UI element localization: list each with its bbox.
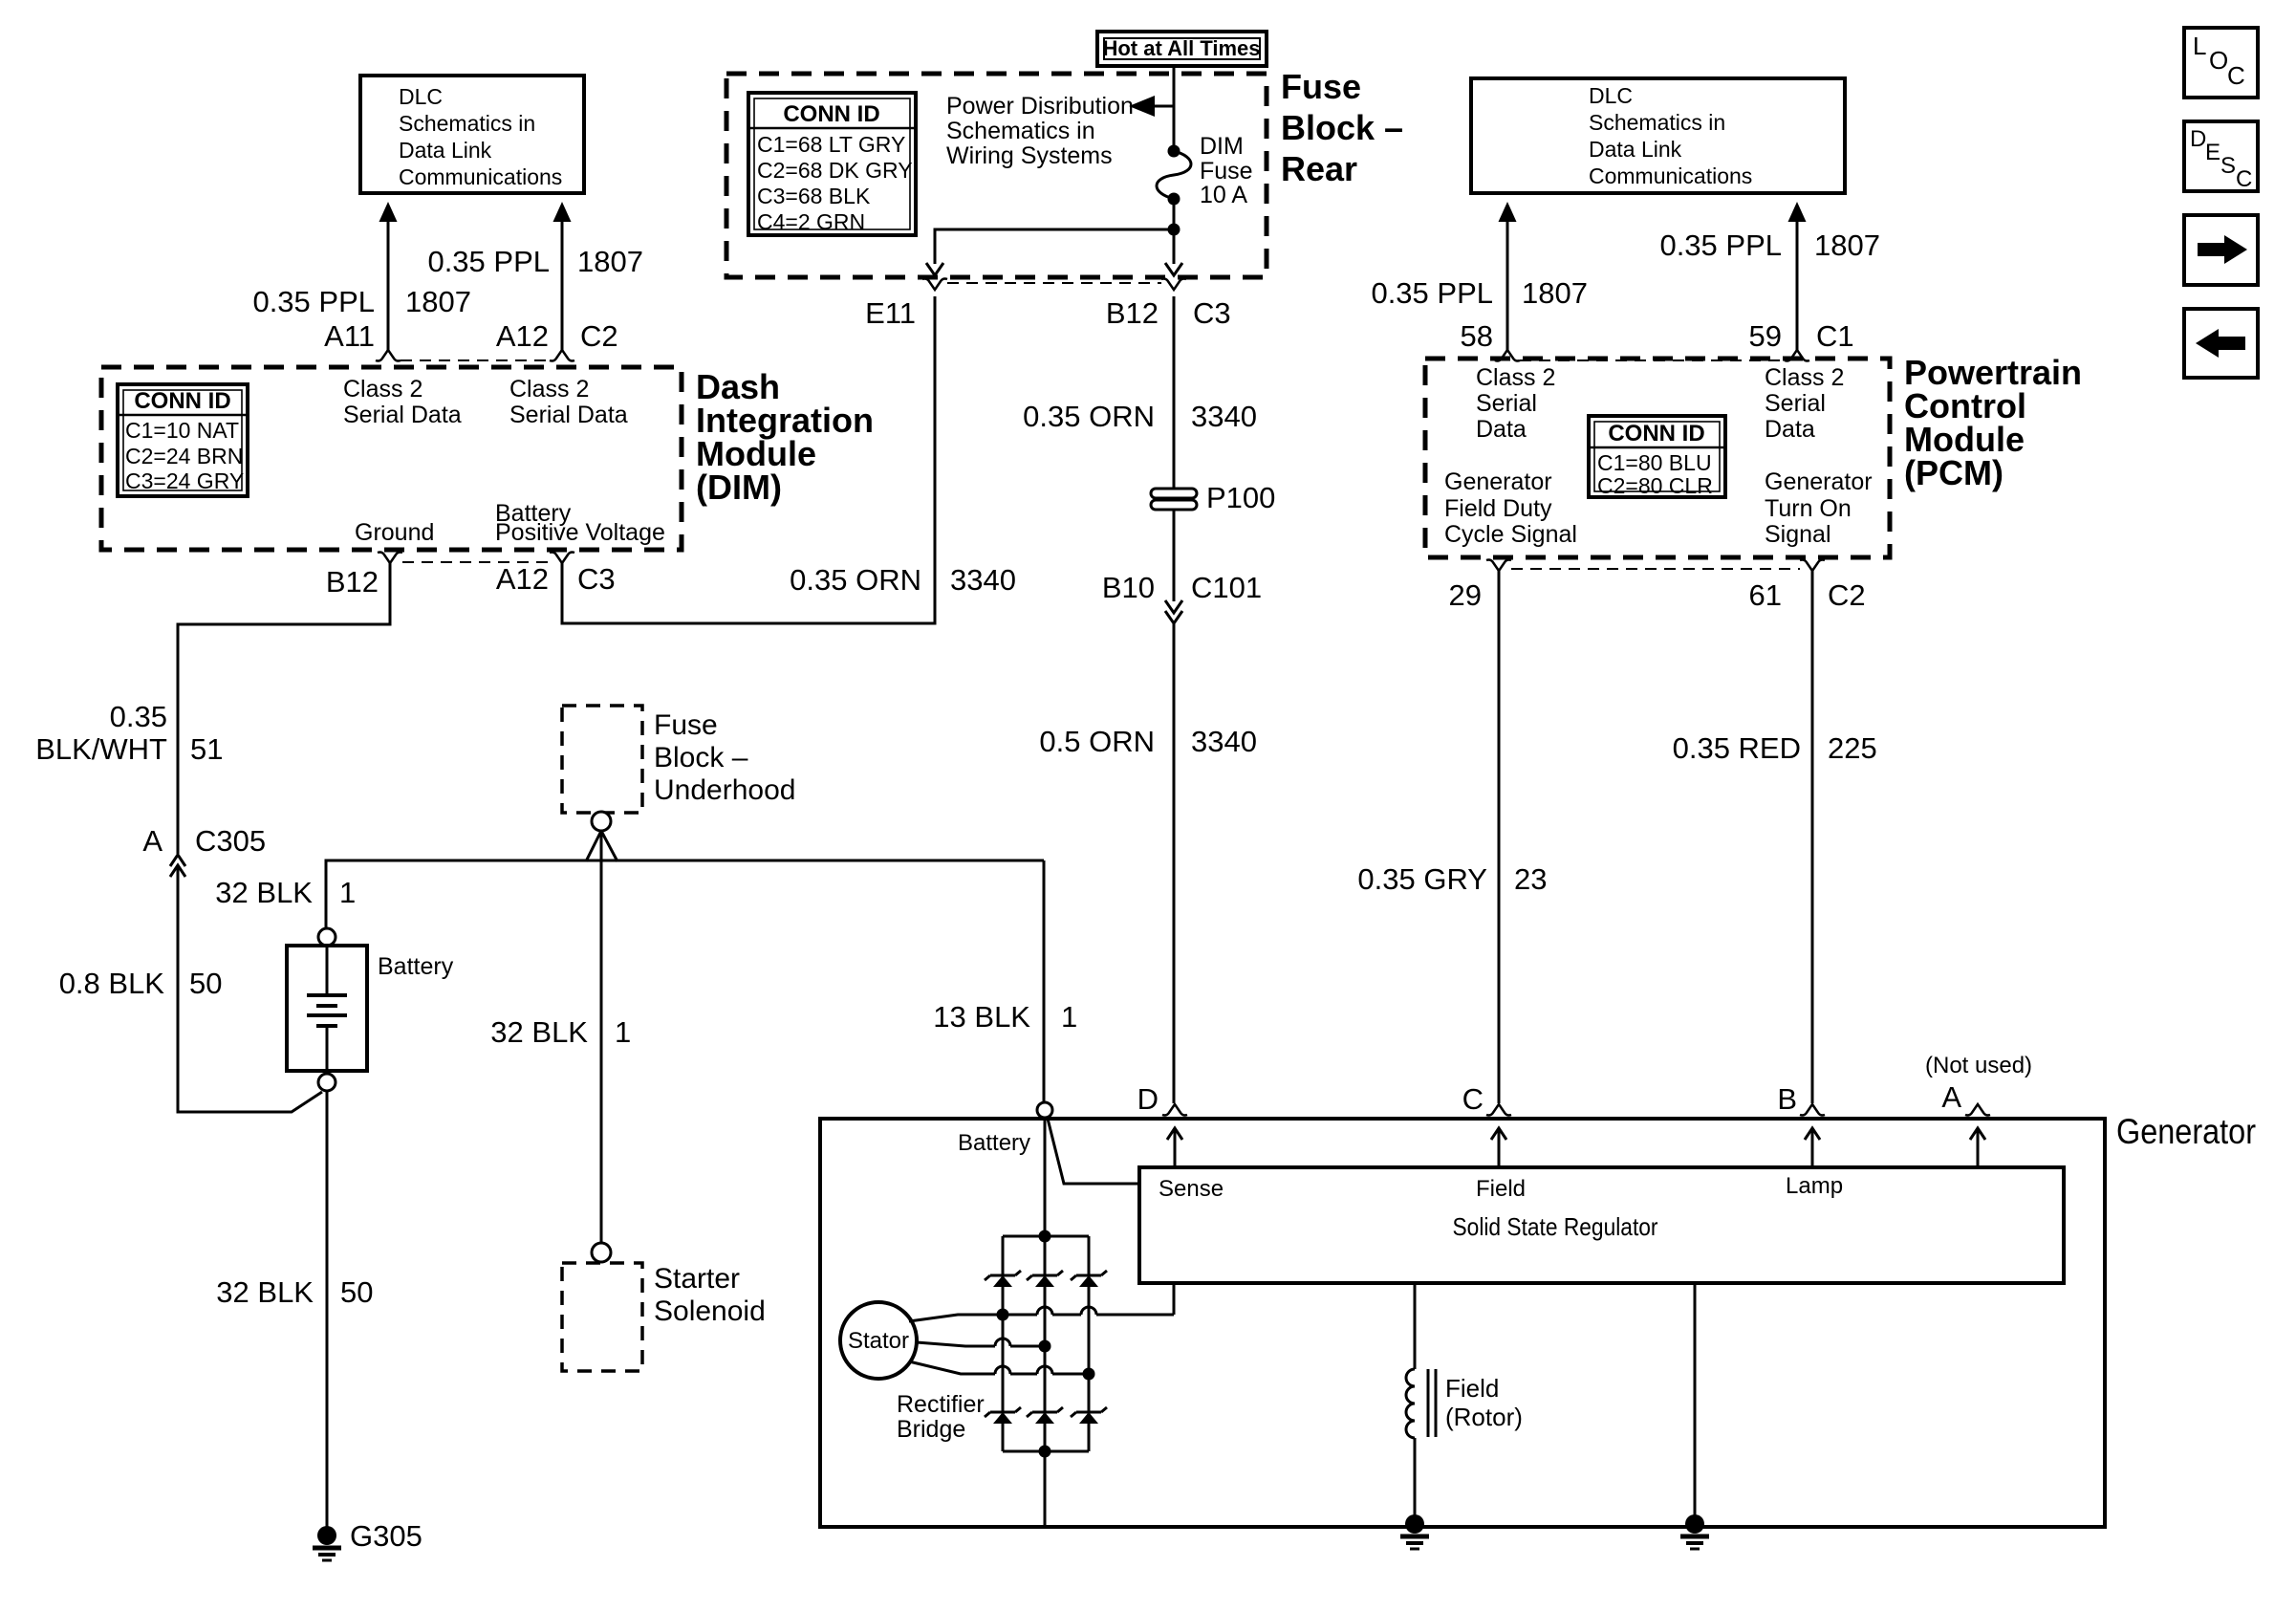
wire: fuse output to junction [1168, 199, 1180, 236]
pin A12 / C3 (DIM bottom) [496, 553, 616, 597]
svg-text:C2=80 CLR: C2=80 CLR [1597, 473, 1713, 498]
wire: 32 BLK 50 battery negative to G305 [216, 1091, 373, 1528]
terminal: generator battery stud [958, 1102, 1052, 1156]
module: Dash Integration Module (DIM) dashed [101, 367, 874, 550]
svg-text:Schematics in: Schematics in [1589, 110, 1725, 135]
svg-text:CONN ID: CONN ID [1608, 421, 1704, 446]
svg-text:0.35 GRY: 0.35 GRY [1357, 862, 1487, 896]
svg-text:O: O [2209, 46, 2228, 75]
svg-text:0.35 ORN: 0.35 ORN [790, 563, 921, 597]
svg-text:Class 2: Class 2 [1476, 364, 1555, 391]
svg-text:A: A [1941, 1080, 1961, 1114]
svg-text:Field: Field [1445, 1374, 1499, 1403]
terminal: starter solenoid stud [592, 1243, 611, 1262]
legend: forward arrow box [2184, 215, 2258, 285]
connector face C1 dashed line [1520, 359, 1785, 361]
rectifier bridge frame [1003, 1230, 1089, 1458]
svg-text:C1=80 BLU: C1=80 BLU [1597, 450, 1712, 475]
svg-text:Solid State Regulator: Solid State Regulator [1453, 1212, 1658, 1241]
svg-text:C101: C101 [1191, 571, 1262, 604]
svg-text:C1=68 LT GRY: C1=68 LT GRY [757, 132, 905, 157]
svg-text:DLC: DLC [1589, 83, 1633, 108]
module: DLC Schematics reference box (left) [360, 76, 584, 193]
svg-text:Field: Field [1476, 1176, 1526, 1202]
legend: back arrow box [2184, 309, 2258, 378]
svg-text:32 BLK: 32 BLK [216, 1275, 314, 1309]
svg-text:CONN ID: CONN ID [134, 388, 230, 414]
wire: battery stud to sense input [1048, 1119, 1139, 1184]
svg-text:1: 1 [1061, 1000, 1077, 1034]
svg-text:23: 23 [1514, 862, 1547, 896]
wire: branch arrow to power distribution note [1129, 96, 1174, 117]
svg-text:Data: Data [1765, 416, 1815, 443]
connector face C3 dashed line [947, 282, 1161, 284]
terminal C (generator) [1462, 1082, 1511, 1167]
regulator: Solid State Regulator box [1139, 1167, 2064, 1283]
wire: junction branch to E11 with arrow [926, 229, 1174, 275]
svg-text:Serial Data: Serial Data [509, 402, 628, 428]
svg-text:0.5 ORN: 0.5 ORN [1039, 725, 1155, 758]
svg-text:1807: 1807 [577, 245, 643, 278]
svg-text:0.35 PPL: 0.35 PPL [252, 285, 375, 318]
svg-text:A12: A12 [496, 319, 549, 353]
wire: 32 BLK 1 battery positive to splice and generator [215, 860, 1044, 928]
svg-text:0.35 PPL: 0.35 PPL [427, 245, 550, 278]
svg-text:Serial: Serial [1476, 390, 1537, 417]
svg-text:50: 50 [189, 967, 222, 1000]
pin 29 (PCM bottom) [1449, 560, 1511, 613]
svg-text:C4=2 GRN: C4=2 GRN [757, 209, 865, 234]
module: Fuse Block - Rear (dashed) [726, 67, 1403, 277]
svg-text:(Not used): (Not used) [1925, 1053, 2032, 1078]
svg-text:C2: C2 [1828, 578, 1866, 612]
svg-text:61: 61 [1749, 578, 1782, 612]
battery [287, 928, 454, 1091]
svg-text:Sense: Sense [1159, 1176, 1224, 1202]
svg-text:51: 51 [190, 732, 223, 766]
legend: LOC box [2184, 28, 2258, 98]
wire: 0.35 GRY 23 from PCM 29 to generator C [1357, 571, 1547, 1103]
svg-text:32 BLK: 32 BLK [215, 876, 313, 909]
svg-text:C3=68 BLK: C3=68 BLK [757, 184, 871, 208]
svg-text:DIM: DIM [1200, 133, 1244, 160]
svg-text:Battery: Battery [958, 1130, 1030, 1156]
svg-text:58: 58 [1461, 319, 1493, 353]
wire: 0.35 RED 225 from PCM 61/C2 to generator B [1673, 571, 1877, 1103]
svg-text:Serial: Serial [1765, 390, 1826, 417]
connector face C2 dashed line (PCM bottom) [1511, 568, 1800, 570]
power label: Hot at All Times [1097, 32, 1267, 66]
wire: stator phase 1 to bridge and regulator [909, 1283, 1174, 1321]
svg-text:Solenoid: Solenoid [654, 1295, 766, 1327]
svg-text:1807: 1807 [1814, 229, 1880, 262]
svg-text:C305: C305 [195, 824, 266, 858]
fuse: DIM Fuse 10 A [1157, 133, 1253, 208]
signal: Class 2 Serial Data (PCM 59) [1765, 364, 1844, 443]
wire: 0.35 PPL 1807 from PCM 59/C1 to DLC [1659, 202, 1880, 350]
module: Fuse Block - Underhood (dashed) [562, 706, 795, 813]
wire: 0.5 ORN 3340 from C101 to generator D [1039, 623, 1257, 1103]
svg-text:1807: 1807 [405, 285, 471, 318]
svg-text:Starter: Starter [654, 1263, 740, 1295]
svg-text:50: 50 [340, 1275, 373, 1309]
svg-text:3340: 3340 [1191, 725, 1257, 758]
svg-text:D: D [2190, 126, 2206, 152]
svg-text:3340: 3340 [950, 563, 1016, 597]
svg-text:225: 225 [1828, 731, 1877, 765]
wire: 0.35 BLK/WHT 51 from DIM B12 to C305 [35, 563, 390, 854]
svg-text:Stator: Stator [848, 1328, 909, 1354]
svg-text:Bridge: Bridge [897, 1416, 965, 1443]
svg-text:Battery: Battery [378, 953, 454, 980]
svg-text:3340: 3340 [1191, 400, 1257, 433]
svg-text:Power Disribution: Power Disribution [946, 93, 1134, 120]
svg-text:L: L [2193, 32, 2206, 60]
svg-text:E: E [2205, 140, 2220, 165]
terminal D (generator) [1137, 1082, 1187, 1167]
svg-text:Hot at All Times: Hot at All Times [1102, 36, 1260, 60]
wire: junction down to B12 with arrow [1165, 229, 1182, 275]
module: Generator box [820, 1112, 2256, 1527]
svg-text:59: 59 [1749, 319, 1782, 353]
svg-text:C: C [1462, 1082, 1484, 1116]
signal: Class 2 Serial Data (DIM A12) [509, 376, 628, 428]
connector E11 (fuse block rear) [865, 279, 947, 331]
wire: stator phase 3 to bridge [909, 1361, 1095, 1381]
wire: 32 BLK 1 to starter solenoid [490, 831, 631, 1243]
ground: field rotor to case [1400, 1514, 1429, 1549]
terminal A (generator, not used) [1925, 1053, 2032, 1167]
svg-text:Signal: Signal [1765, 521, 1831, 548]
ground G305 [313, 1519, 422, 1560]
wire: 0.35 PPL 1807 from DIM A12/C2 to DLC [427, 202, 643, 350]
diodes: rectifier bridge top row [985, 1271, 1107, 1287]
table: CONN ID (Fuse Block Rear) [748, 93, 916, 235]
pin 61 / C2 (PCM bottom) [1749, 560, 1866, 613]
svg-text:Communications: Communications [1589, 163, 1752, 188]
svg-text:E11: E11 [865, 296, 916, 330]
svg-text:Class 2: Class 2 [509, 376, 589, 403]
signal: Battery Positive Voltage (DIM A12/C3) [495, 500, 665, 546]
wire: 0.8 BLK 50 from C305 to battery negative [59, 865, 322, 1112]
svg-text:P100: P100 [1206, 481, 1275, 514]
svg-text:D: D [1137, 1082, 1159, 1116]
svg-text:Fuse: Fuse [1281, 67, 1361, 106]
wire: feed from Hot at All Times into fuse [1173, 66, 1176, 151]
connector A / C305 in-line [142, 824, 266, 877]
svg-text:Data Link: Data Link [1589, 137, 1682, 162]
svg-text:Data: Data [1476, 416, 1527, 443]
svg-text:Data Link: Data Link [399, 138, 492, 163]
svg-text:CONN ID: CONN ID [783, 101, 879, 127]
label: Rectifier Bridge [897, 1391, 985, 1443]
svg-text:Generator: Generator [2116, 1112, 2256, 1151]
pin A11 [324, 319, 401, 361]
svg-text:C2=68 DK GRY: C2=68 DK GRY [757, 158, 913, 183]
connector B10 / C101 pass-through [1102, 571, 1262, 623]
svg-text:Class 2: Class 2 [1765, 364, 1844, 391]
svg-text:A: A [142, 824, 162, 858]
connector face C2 dashed line [401, 359, 550, 361]
field rotor coil [1406, 1283, 1523, 1520]
module: Starter Solenoid (dashed) [562, 1263, 766, 1371]
svg-text:(PCM): (PCM) [1904, 453, 2004, 492]
svg-text:C: C [2227, 61, 2245, 90]
svg-text:Turn On: Turn On [1765, 495, 1852, 522]
svg-text:Class 2: Class 2 [343, 376, 422, 403]
svg-text:Serial Data: Serial Data [343, 402, 462, 428]
signal: Class 2 Serial Data (PCM 58) [1476, 364, 1555, 443]
svg-text:C2: C2 [580, 319, 618, 353]
svg-text:Ground: Ground [355, 519, 434, 546]
svg-text:BLK/WHT: BLK/WHT [35, 732, 167, 766]
module: DLC Schematics reference box (right) [1471, 78, 1845, 193]
svg-text:Positive Voltage: Positive Voltage [495, 519, 665, 546]
svg-text:C3=24 GRY: C3=24 GRY [125, 468, 244, 493]
signal: Generator Field Duty Cycle Signal [1444, 468, 1577, 548]
svg-text:0.35 PPL: 0.35 PPL [1371, 276, 1493, 310]
svg-text:Schematics in: Schematics in [399, 111, 535, 136]
svg-text:0.8 BLK: 0.8 BLK [59, 967, 165, 1000]
wire: battery stud down through rectifier bridge [1044, 1118, 1047, 1527]
svg-text:Schematics in: Schematics in [946, 118, 1095, 144]
svg-text:1: 1 [615, 1015, 631, 1049]
svg-text:0.35 ORN: 0.35 ORN [1023, 400, 1155, 433]
svg-text:Rectifier: Rectifier [897, 1391, 985, 1418]
connector face C3 dashed line (DIM bottom) [402, 561, 550, 563]
svg-text:Generator: Generator [1765, 468, 1873, 495]
svg-text:0.35: 0.35 [110, 700, 167, 733]
connector B12 / C3 (fuse block rear) [1106, 279, 1231, 331]
svg-text:1: 1 [339, 876, 356, 909]
legend: DESC box [2184, 121, 2258, 192]
ground: regulator to case [1680, 1514, 1709, 1549]
wire: P100 to C101 [1173, 510, 1176, 601]
svg-text:32 BLK: 32 BLK [490, 1015, 588, 1049]
svg-text:Generator: Generator [1444, 468, 1552, 495]
svg-text:(Rotor): (Rotor) [1445, 1403, 1523, 1431]
svg-text:B: B [1777, 1082, 1797, 1116]
terminal B (generator) [1777, 1082, 1825, 1167]
splice: fuse block underhood feed [586, 812, 617, 861]
svg-text:C3: C3 [577, 562, 616, 596]
svg-text:G305: G305 [350, 1519, 422, 1553]
pin B12 (DIM bottom) [326, 553, 402, 599]
diodes: rectifier bridge bottom row [985, 1407, 1107, 1424]
svg-text:Lamp: Lamp [1786, 1173, 1843, 1199]
svg-text:Underhood: Underhood [654, 774, 795, 806]
note: Power Disribution Schematics in Wiring Systems [946, 93, 1134, 169]
svg-text:C2=24 BRN: C2=24 BRN [125, 444, 243, 468]
wire: stator phase 2 to bridge [917, 1339, 1051, 1353]
svg-text:Block –: Block – [1281, 108, 1403, 147]
wire: regulator ground leg [1694, 1283, 1697, 1520]
svg-text:10 A: 10 A [1200, 182, 1247, 208]
signal: Generator Turn On Signal [1765, 468, 1873, 548]
svg-text:(DIM): (DIM) [696, 468, 782, 507]
svg-text:1807: 1807 [1522, 276, 1588, 310]
svg-text:DLC: DLC [399, 84, 443, 109]
wire: 0.35 PPL 1807 from PCM 58 to DLC [1371, 202, 1588, 350]
svg-text:A11: A11 [324, 319, 375, 353]
table: CONN ID (PCM) [1589, 416, 1725, 498]
svg-text:0.35 RED: 0.35 RED [1673, 731, 1801, 765]
svg-text:C3: C3 [1193, 296, 1231, 330]
svg-text:S: S [2220, 153, 2236, 179]
module: Powertrain Control Module (PCM) dashed [1425, 353, 2082, 557]
svg-text:B12: B12 [1106, 296, 1159, 330]
svg-text:Fuse: Fuse [1200, 158, 1253, 185]
stator [840, 1302, 917, 1379]
wire: 13 BLK 1 down to generator battery terminal [933, 860, 1077, 1102]
pin 58 (PCM top) [1461, 319, 1520, 361]
svg-text:A12: A12 [496, 562, 549, 596]
signal: Ground (DIM B12) [355, 519, 434, 546]
svg-text:C: C [2236, 166, 2252, 192]
svg-text:Rear: Rear [1281, 149, 1357, 188]
svg-text:Block –: Block – [654, 742, 748, 773]
wire: 0.35 ORN 3340 from fuse B12/C3 to P100 [1023, 296, 1257, 489]
svg-text:B10: B10 [1102, 571, 1155, 604]
svg-text:13 BLK: 13 BLK [933, 1000, 1030, 1034]
table: CONN ID (DIM) [118, 384, 248, 496]
svg-text:0.35 PPL: 0.35 PPL [1659, 229, 1782, 262]
wire: 0.35 PPL 1807 from DIM A11 to DLC [252, 202, 471, 350]
wire: 0.35 ORN 3340 from DIM A12/C3 to fuse block E11 [562, 296, 1016, 623]
svg-text:C1: C1 [1816, 319, 1854, 353]
svg-text:C1=10 NAT: C1=10 NAT [125, 418, 239, 443]
connector P100 [1151, 481, 1275, 514]
svg-text:B12: B12 [326, 565, 379, 599]
svg-text:Cycle Signal: Cycle Signal [1444, 521, 1577, 548]
svg-text:29: 29 [1449, 578, 1482, 612]
pin 59 / C1 (PCM top) [1749, 319, 1854, 361]
svg-text:Communications: Communications [399, 164, 562, 189]
svg-text:Field Duty: Field Duty [1444, 495, 1552, 522]
svg-text:Wiring Systems: Wiring Systems [946, 142, 1113, 169]
pin A12 / C2 [496, 319, 618, 361]
signal: Class 2 Serial Data (DIM A11) [343, 376, 462, 428]
svg-text:Fuse: Fuse [654, 709, 718, 741]
